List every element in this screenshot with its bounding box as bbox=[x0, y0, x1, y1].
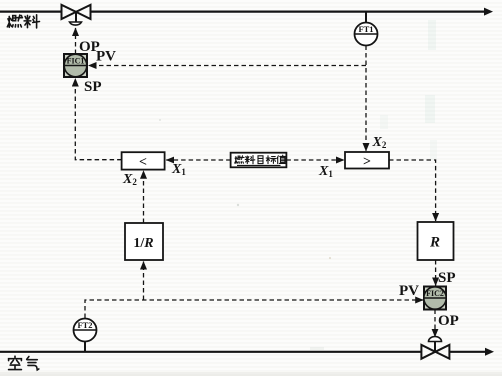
flow transmitter FT1 bbox=[355, 12, 378, 46]
svg-text:PV: PV bbox=[399, 283, 419, 299]
svg-text:X1: X1 bbox=[171, 162, 186, 177]
svg-text:X2: X2 bbox=[372, 135, 387, 150]
svg-text:X1: X1 bbox=[318, 164, 333, 179]
svg-text:FT1: FT1 bbox=[358, 24, 373, 34]
fuel pipe (top) bbox=[0, 11, 487, 13]
wire PV: FT1 to FIC1 bbox=[89, 65, 367, 67]
svg-text:PV: PV bbox=[96, 49, 116, 65]
svg-text:SP: SP bbox=[84, 79, 102, 95]
control valve V2 (air) bbox=[421, 342, 449, 359]
control valve V1 (fuel) bbox=[62, 5, 91, 22]
wire OP: FIC1 to valve V1 bbox=[75, 28, 77, 54]
label 燃料 (fuel) bbox=[7, 15, 39, 28]
wire: target value to high selector (X1) bbox=[286, 159, 344, 161]
wire branch to 1/R bbox=[143, 262, 145, 301]
wire: 1/R to low selector (X2 input) bbox=[143, 171, 145, 223]
svg-text:SP: SP bbox=[438, 270, 456, 286]
wire: high selector to ratio block R bbox=[389, 160, 436, 221]
wire FT1 to high selector (X2 input) bbox=[365, 46, 367, 152]
controller FIC1 bbox=[64, 54, 87, 77]
wire SP: low selector to FIC1 bbox=[75, 79, 121, 160]
svg-text:1/R: 1/R bbox=[133, 236, 153, 251]
fuel target value box 燃料目标值 bbox=[231, 153, 287, 168]
high selector (>) bbox=[345, 152, 389, 170]
wire PV: FT2 to FIC2 bbox=[85, 300, 423, 318]
ratio block 1/R bbox=[125, 223, 163, 260]
wire: target value to low selector (X1) bbox=[166, 159, 230, 161]
svg-text:FT2: FT2 bbox=[77, 320, 92, 330]
valve V1 actuator diaphragm bbox=[70, 22, 82, 25]
air pipe arrowhead bbox=[485, 348, 494, 356]
svg-text:FIC2: FIC2 bbox=[426, 289, 444, 298]
svg-text:OP: OP bbox=[438, 313, 459, 329]
svg-text:<: < bbox=[139, 155, 147, 170]
svg-text:X2: X2 bbox=[122, 172, 137, 187]
controller FIC2 bbox=[424, 287, 446, 310]
low selector (<) bbox=[122, 152, 165, 170]
wire SP: R to FIC2 bbox=[435, 260, 437, 286]
svg-text:>: > bbox=[363, 155, 371, 170]
valve V2 actuator diaphragm bbox=[429, 337, 442, 342]
ratio block R bbox=[418, 222, 454, 260]
svg-text:R: R bbox=[429, 235, 440, 251]
fuel pipe arrowhead bbox=[484, 8, 493, 16]
air pipe (bottom) bbox=[0, 351, 488, 353]
flow transmitter FT2 bbox=[74, 319, 97, 352]
label 空气 (air) bbox=[9, 356, 39, 370]
svg-text:FIC1: FIC1 bbox=[67, 57, 85, 66]
wire OP: FIC2 to valve V2 bbox=[434, 310, 436, 337]
